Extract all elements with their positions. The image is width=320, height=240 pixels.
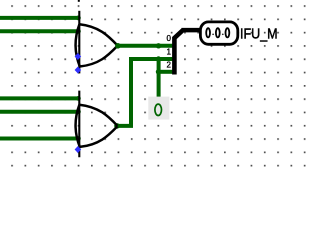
svg-text:0: 0 bbox=[167, 34, 172, 43]
wire WV (vertical from constant C0 up to WB) bbox=[157, 59, 161, 101]
wire WB (U2 output up and right to splitter pin 1) bbox=[116, 59, 172, 126]
svg-text:IFU_M: IFU_M bbox=[240, 26, 278, 42]
svg-text:1: 1 bbox=[167, 48, 172, 57]
junction dot on WA bbox=[156, 43, 161, 48]
node: U2 output dot bbox=[114, 123, 120, 129]
floating input pin U2 pin 5 (blue) bbox=[75, 146, 82, 153]
node: U1 output dot bbox=[115, 43, 121, 49]
wire W1 (into U1 pin 1) bbox=[0, 16, 80, 20]
wire stub at top edge bbox=[78, 0, 80, 2]
node: wire W4 end cap at U2 pin 2 bbox=[76, 109, 81, 114]
wire WC (to splitter pin 2) bbox=[159, 70, 173, 74]
probe PR1 digit 0 (bit 0) bbox=[226, 28, 230, 37]
node: wire W2 end cap at U1 pin 2 bbox=[76, 29, 81, 34]
or-gate U2 bbox=[76, 91, 118, 158]
probe PR1 digit 0 (bit 1) bbox=[216, 28, 220, 37]
or-gate U1 bbox=[76, 11, 118, 74]
svg-text:2: 2 bbox=[167, 60, 172, 69]
junction dot on WB (constant feed tee) bbox=[156, 56, 161, 61]
probe PR1 digit 0 (bit 2) bbox=[206, 28, 210, 37]
constant C0 value 0 (green) bbox=[155, 104, 162, 115]
splitter SP1 spine bbox=[174, 30, 183, 74]
probe PR1 body bbox=[200, 22, 237, 44]
wire W3 (into U2 pin 1) bbox=[0, 96, 80, 100]
wire WA (U1 output to splitter pin 0) bbox=[116, 44, 172, 48]
wire W5 (into U2 pin 4) bbox=[0, 137, 80, 141]
splitter SP1 trunk (bus to probe) bbox=[182, 28, 201, 33]
constant C0 selection halo bbox=[148, 97, 169, 120]
floating input pin U1 pin 4 (blue) bbox=[75, 53, 82, 60]
floating input pin U1 pin 5 (blue) bbox=[75, 67, 82, 74]
probe PR1 separator dot bbox=[222, 33, 224, 35]
wire W4 (into U2 pin 2) bbox=[0, 110, 80, 114]
probe PR1 separator dot bbox=[212, 33, 214, 35]
junction dot where WC tees off WV bbox=[156, 69, 161, 74]
node: wire W3 end cap at U2 pin 1 bbox=[76, 96, 81, 101]
node: wire W1 end cap at U1 pin 1 bbox=[76, 16, 81, 21]
node: WV end cap at constant C0 pin bbox=[156, 98, 161, 103]
node: wire W5 end cap at U2 pin 4 bbox=[76, 136, 81, 141]
wire W2 (into U1 pin 2) bbox=[0, 29, 80, 33]
